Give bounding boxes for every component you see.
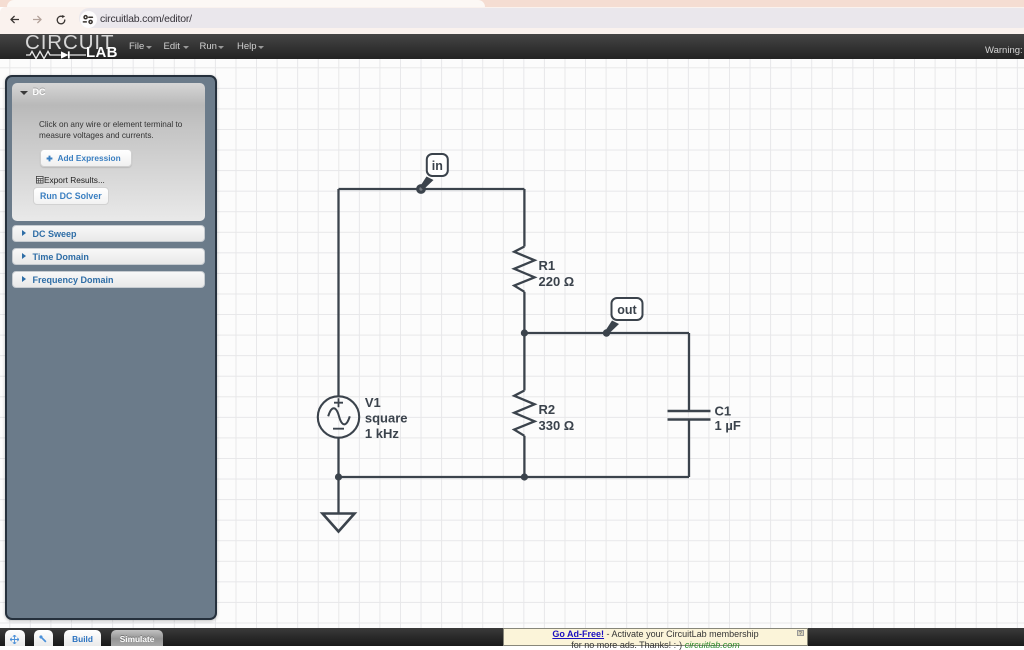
svg-text:R2: R2 (539, 401, 556, 416)
menus (129, 41, 144, 52)
junction at V1 bottom / ground node (335, 473, 342, 480)
svg-text:C1: C1 (715, 403, 732, 418)
forward arrow (disabled) (33, 15, 42, 24)
capacitor C1 (668, 411, 711, 420)
node flag in (420, 154, 448, 190)
wire mid (524, 331, 689, 333)
logo CIRCUIT (25, 34, 114, 51)
junction at R2 bottom on bottom wire (521, 473, 528, 480)
move tool button (5, 630, 25, 646)
svg-text:220 Ω: 220 Ω (539, 274, 575, 289)
back arrow (10, 15, 19, 24)
V1 polarity marks (333, 398, 344, 429)
ground (323, 513, 355, 531)
svg-text:square: square (365, 410, 408, 425)
wire V1 bottom to ground node (337, 438, 339, 477)
Run DC Solver button (33, 187, 109, 205)
tune icon (82, 14, 94, 26)
wire C1 bottom (688, 419, 690, 477)
Time Domain bar (12, 248, 205, 266)
node out junction R1/R2 (521, 329, 528, 336)
svg-text:R1: R1 (539, 258, 556, 273)
svg-text:1 µF: 1 µF (715, 418, 741, 433)
wire R1 top (523, 189, 525, 247)
in flag terminal dot (416, 184, 426, 194)
voltage source V1 body (318, 396, 359, 437)
wire ground stem (337, 477, 339, 514)
Export Results (36, 176, 44, 184)
DC Sweep bar (12, 225, 205, 243)
out flag terminal dot (603, 329, 610, 336)
svg-text:330 Ω: 330 Ω (539, 417, 575, 432)
reload icon (56, 15, 66, 25)
Build button (64, 630, 102, 646)
site icon chip (80, 11, 97, 28)
wire R2 bottom (523, 435, 525, 476)
svg-text:V1: V1 (365, 395, 381, 410)
Add Expression button (40, 149, 133, 167)
wire R2 top (523, 333, 525, 391)
DC expanded box (12, 83, 205, 221)
node flag out (606, 298, 643, 334)
wire C1 top (688, 333, 690, 411)
V1 sine symbol (328, 408, 350, 424)
wire left vertical (337, 189, 339, 396)
wire tool button (34, 630, 54, 646)
wire top (339, 187, 525, 189)
resistor R2 (514, 390, 534, 435)
svg-text:in: in (432, 159, 443, 173)
wire bottom (339, 475, 690, 477)
svg-text:1 kHz: 1 kHz (365, 425, 399, 440)
wire R1 bottom (523, 291, 525, 332)
resistor R1 (514, 246, 534, 291)
Simulate button (active) (111, 630, 163, 646)
in flag terminal dot center (419, 187, 422, 190)
logo squiggle + diode + LAB (26, 50, 86, 60)
svg-text:out: out (617, 303, 637, 317)
address pill (79, 8, 1024, 28)
Frequency Domain bar (12, 271, 205, 289)
